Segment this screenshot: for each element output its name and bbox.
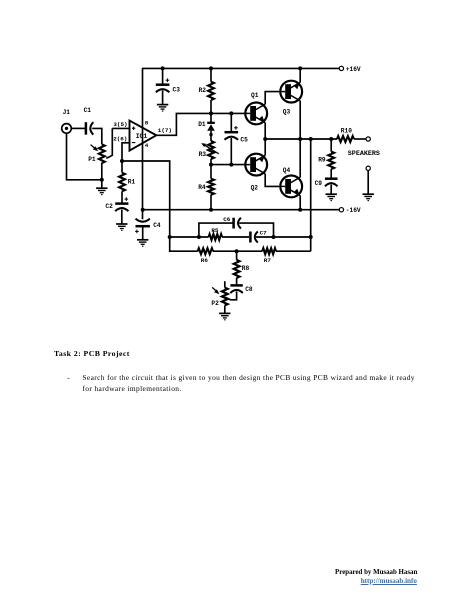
junction C6 right	[272, 235, 276, 239]
wire Q2 collector to Q4 base	[265, 174, 280, 187]
svg-text:+16V: +16V	[346, 66, 361, 73]
ground below speaker terminal	[363, 193, 374, 195]
svg-text:R1: R1	[128, 179, 136, 186]
svg-text:C6: C6	[223, 216, 231, 223]
wire P2 to ground	[224, 305, 226, 313]
svg-text:C3: C3	[173, 86, 181, 93]
svg-text:3(5): 3(5)	[113, 121, 127, 128]
transistor Q3	[280, 81, 302, 103]
wire feedback row R5/C7	[170, 236, 209, 238]
wire IC1 -input	[122, 143, 130, 161]
junction feedback node	[168, 235, 172, 239]
terminal -16V	[339, 208, 343, 212]
svg-text:R9: R9	[318, 157, 326, 164]
junction R9 top	[329, 137, 333, 141]
capacitor C1	[85, 122, 88, 134]
capacitor C8	[230, 284, 242, 287]
potentiometer P1	[99, 144, 105, 163]
svg-text:SPEAKERS: SPEAKERS	[348, 150, 380, 158]
svg-text:R10: R10	[341, 128, 352, 135]
resistor R5	[209, 234, 223, 240]
svg-text:C1: C1	[84, 107, 92, 114]
svg-text:Q4: Q4	[283, 167, 291, 174]
svg-text:R3: R3	[199, 151, 207, 158]
resistor R7	[237, 250, 263, 252]
junction C5 bottom	[229, 163, 233, 167]
resistor R9	[330, 139, 332, 152]
wire IC1 pin8/pin4 power line	[142, 68, 144, 219]
wire C4 to ground	[142, 226, 144, 240]
terminal speaker -	[366, 166, 370, 170]
wire output node	[265, 138, 337, 140]
wire Q3/Q4 to output node	[299, 101, 301, 177]
junction -16V rail / IC1 pin4 / C4	[141, 208, 145, 212]
wire +16V top rail	[142, 67, 339, 69]
svg-text:R8: R8	[242, 265, 250, 272]
wire Q2 emitter to output node	[264, 139, 266, 155]
wire Q3 emitter to +16V rail	[299, 68, 301, 82]
svg-text:R6: R6	[201, 257, 209, 264]
junction R6/R7/R8	[235, 249, 239, 253]
svg-text:IC1: IC1	[136, 133, 148, 140]
transistor Q4	[280, 176, 302, 198]
ground below C9	[326, 193, 337, 195]
capacitor C3	[156, 83, 170, 86]
svg-text:1(7): 1(7)	[158, 127, 172, 134]
ground below P2	[219, 312, 230, 314]
svg-text:Q2: Q2	[251, 184, 259, 191]
wire J1 to C1	[71, 127, 86, 129]
capacitor C9	[330, 169, 332, 179]
capacitor C5	[230, 113, 232, 132]
junction R2/D1 top	[209, 111, 213, 115]
resistor R2	[210, 68, 212, 81]
wire IC1 +input	[112, 127, 129, 129]
transistor Q1	[245, 103, 267, 125]
terminal speaker +	[366, 137, 370, 141]
svg-text:C7: C7	[260, 230, 268, 237]
svg-text:8: 8	[145, 120, 149, 127]
capacitor C2	[115, 202, 128, 205]
ground below C4	[137, 239, 148, 241]
wire Q1 collector to Q3 base	[265, 92, 280, 105]
wire -input to feedback node	[122, 161, 170, 237]
svg-text:Q1: Q1	[251, 92, 259, 99]
connector J1	[62, 124, 72, 134]
wire R3/R4 node to Q2 base	[211, 164, 246, 166]
wire R1 to C2	[121, 191, 123, 203]
svg-text:P2: P2	[211, 300, 219, 307]
resistor R8	[236, 251, 238, 260]
wire C8 to P2 wiper	[225, 291, 236, 299]
transistor Q2	[245, 154, 267, 176]
junction -input node	[120, 159, 124, 163]
svg-text:-16V: -16V	[346, 207, 361, 214]
wire speaker - to ground	[367, 170, 369, 194]
wire output to feedback column	[310, 139, 312, 251]
svg-text:C8: C8	[245, 286, 253, 293]
svg-text:R5: R5	[211, 227, 219, 234]
wire C1 to P1 top	[92, 128, 102, 144]
resistor R6	[198, 248, 213, 254]
svg-text:Q3: Q3	[283, 108, 291, 115]
trimmer R3	[210, 135, 212, 141]
capacitor C6 bridge	[199, 223, 234, 237]
wire Q4 to -16V rail	[299, 196, 301, 210]
junction C6 left	[197, 235, 201, 239]
potentiometer P2	[224, 281, 226, 287]
wire C3 to ground	[162, 91, 164, 105]
svg-text:R7: R7	[264, 257, 272, 264]
ground below C2	[116, 223, 127, 225]
svg-text:4: 4	[145, 142, 149, 149]
wire C2 to ground	[121, 210, 123, 224]
resistor R10	[337, 136, 354, 142]
junction R4 / -16V rail	[209, 208, 213, 212]
op-amp IC1	[130, 121, 157, 151]
svg-text:D1: D1	[198, 121, 206, 128]
wire IC1 output to base line	[156, 113, 245, 135]
svg-text:C4: C4	[153, 222, 161, 229]
svg-text:J1: J1	[63, 109, 71, 116]
wire Q1 emitter to output node	[264, 123, 266, 139]
capacitor C4	[136, 225, 150, 228]
junction P1/J1 ground	[100, 178, 104, 182]
wire ground bus to J1	[67, 133, 102, 180]
junction C7 row right	[309, 235, 313, 239]
junction C5 top	[229, 111, 233, 115]
junction R3/R4	[209, 163, 213, 167]
wire C9 to ground	[330, 185, 332, 195]
wire C3 to +16V rail	[162, 68, 164, 84]
wire -16V bottom rail	[143, 209, 340, 211]
junction Q3/Q4 output	[298, 137, 302, 141]
svg-text:C9: C9	[315, 180, 323, 187]
capacitor C7	[249, 232, 252, 243]
svg-text:C2: C2	[105, 203, 113, 210]
svg-text:C5: C5	[240, 136, 248, 143]
wire to R6 row	[170, 237, 198, 251]
junction D1/R3	[209, 133, 212, 136]
wire P1 bottom to ground bus	[101, 163, 103, 180]
svg-text:P1: P1	[88, 156, 96, 163]
resistor R4	[210, 165, 212, 179]
diode D1	[210, 113, 212, 122]
ground below C3	[157, 104, 168, 106]
svg-text:R4: R4	[198, 184, 206, 191]
terminal +16V	[339, 66, 343, 70]
ground below P1	[101, 180, 103, 188]
resistor R1	[121, 161, 123, 173]
junction feedback takeoff	[309, 137, 313, 141]
wire P1 wiper to IC1 +input	[106, 128, 112, 158]
svg-text:R2: R2	[199, 87, 207, 94]
svg-text:2(6): 2(6)	[113, 136, 127, 143]
